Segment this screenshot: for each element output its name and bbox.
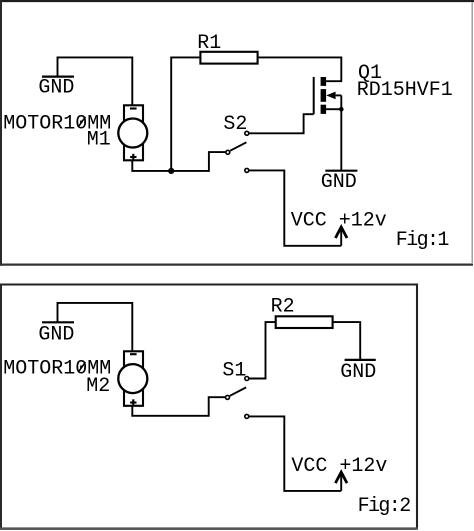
switch S2 (SPDT) xyxy=(226,131,249,172)
svg-text:M1: M1 xyxy=(87,129,111,152)
label MOTOR10MM (M1 value) xyxy=(3,112,111,135)
svg-text:R1: R1 xyxy=(197,32,221,55)
svg-text:Fig:2: Fig:2 xyxy=(358,495,411,518)
wire W6 (Q1 source to GND2) xyxy=(340,95,342,170)
label MOTOR10MM (M2 value) xyxy=(3,358,111,381)
motor M1 xyxy=(118,105,147,160)
wire W4 (R1 right to Q1 drain) xyxy=(258,57,342,81)
ground GND4 xyxy=(340,360,376,384)
power VCC1 +12v arrow xyxy=(335,227,347,246)
motor M2 xyxy=(118,351,147,406)
svg-text:R2: R2 xyxy=(271,296,295,319)
svg-text:S2: S2 xyxy=(223,113,247,136)
svg-text:Fig:1: Fig:1 xyxy=(396,229,450,252)
transistor Q1 (N-channel MOSFET) xyxy=(314,77,342,114)
switch S1 (SPDT) xyxy=(226,377,249,419)
svg-text:VCC +12v: VCC +12v xyxy=(291,209,387,232)
wire W8 (GND3 up to motor M2 top) xyxy=(58,303,133,352)
ground GND3 xyxy=(38,322,74,346)
resistor R1 xyxy=(200,52,257,64)
wire W5 (S2 throw 1 to Q1 gate) xyxy=(249,114,314,133)
svg-text:VCC +12v: VCC +12v xyxy=(291,455,387,478)
wire W12 (S1 throw 2 to VCC2) xyxy=(249,416,341,491)
wire W10 (S1 throw 1 to R2 left) xyxy=(249,322,276,378)
svg-text:GND: GND xyxy=(38,77,74,100)
ground GND1 xyxy=(38,77,74,100)
resistor R2 xyxy=(276,316,333,328)
wire W3 (junction J1 to R1 left) xyxy=(171,57,200,170)
ground GND2 xyxy=(321,171,358,194)
svg-text:RD15HVF1: RD15HVF1 xyxy=(357,79,453,102)
wire W7 (S2 throw 2 to VCC1) xyxy=(249,170,341,245)
wire W2 (M1 bottom to S2 pole) xyxy=(132,152,225,171)
svg-text:M2: M2 xyxy=(86,375,110,398)
svg-text:S1: S1 xyxy=(222,359,246,382)
svg-text:GND: GND xyxy=(38,323,74,346)
wire W9 (M2 bottom to S1 pole) xyxy=(132,397,225,416)
wire W11 (R2 right to GND4) xyxy=(333,322,361,360)
svg-text:GND: GND xyxy=(340,361,376,384)
junction J1 xyxy=(168,168,174,174)
svg-text:GND: GND xyxy=(321,171,357,194)
junction J2 xyxy=(339,107,344,112)
wire W1 (GND1 up to motor M1 top) xyxy=(58,57,133,105)
power VCC2 +12v arrow xyxy=(335,472,347,491)
